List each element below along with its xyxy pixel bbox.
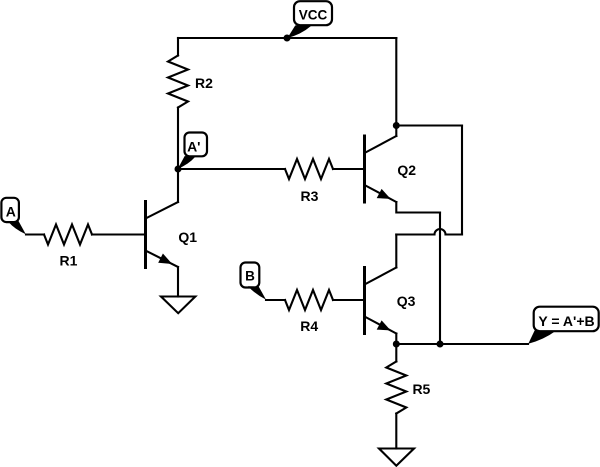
svg-text:R4: R4 [300,318,318,334]
flag VCC [287,1,332,38]
wire right rail down [461,126,463,235]
wire B to R4 [266,299,285,301]
svg-text:Q3: Q3 [397,293,416,309]
wire Q1 emitter to ground [177,267,179,297]
wire R4 to Q3 base [333,299,365,301]
wire Q1 collector to node A' [177,169,179,202]
node Q2 collector junction [393,122,400,129]
transistor Q3 [365,268,397,334]
flag Y = A'+B [528,307,598,344]
wire top VCC rail [178,37,396,39]
ground (Q1 emitter) [161,297,195,314]
svg-text:Q2: Q2 [397,162,416,178]
svg-text:A: A [6,204,16,220]
wire Q2 collector to node [395,126,397,137]
resistor R4 [285,290,333,310]
flag A' [178,133,207,169]
transistor Q1 [146,202,179,268]
resistor R5 [386,362,406,414]
resistor R2 [168,56,188,108]
svg-text:B: B [245,269,255,284]
svg-text:R2: R2 [195,75,213,91]
wire R3 to Q2 base [333,168,365,170]
svg-text:A': A' [187,139,200,155]
wire R5 to ground [395,414,397,449]
svg-text:Y = A'+B: Y = A'+B [538,313,594,329]
node output junction at Q2 emitter wire [437,341,444,348]
wire VCC rail down to Q2 collector node [395,38,397,126]
svg-text:Q1: Q1 [178,229,197,245]
svg-text:VCC: VCC [299,7,328,22]
transistor Q2 [365,136,397,202]
node output junction at R5 [393,341,400,348]
wire Q3 emitter to output node [395,334,397,345]
wire down to Q3 collector [395,235,397,268]
resistor R3 [285,159,333,179]
wire Q2 emitter down to output node [439,213,441,345]
wire right rail to Q3 collector (hop over Q2 emitter wire) [396,229,462,235]
wire Q2 emitter jog [396,202,440,213]
wire output node to R5 [395,344,397,362]
wire node A' to R3 [178,168,285,170]
wire A to R1 [26,233,44,235]
flag B [241,263,267,300]
resistor R1 [44,225,92,245]
wire output line to Y flag [396,343,528,345]
ground (R5) [379,449,414,466]
wire R1 to Q1 base [92,233,146,235]
node A' junction [175,166,182,173]
wire R2 top lead [177,38,179,56]
wire collector node to right rail [396,124,462,126]
svg-text:R1: R1 [60,253,78,269]
svg-text:R5: R5 [412,381,430,397]
node VCC junction [284,35,291,42]
wire R2 bottom to node A' [177,108,179,170]
flag A [1,198,25,234]
svg-text:R3: R3 [301,188,319,204]
